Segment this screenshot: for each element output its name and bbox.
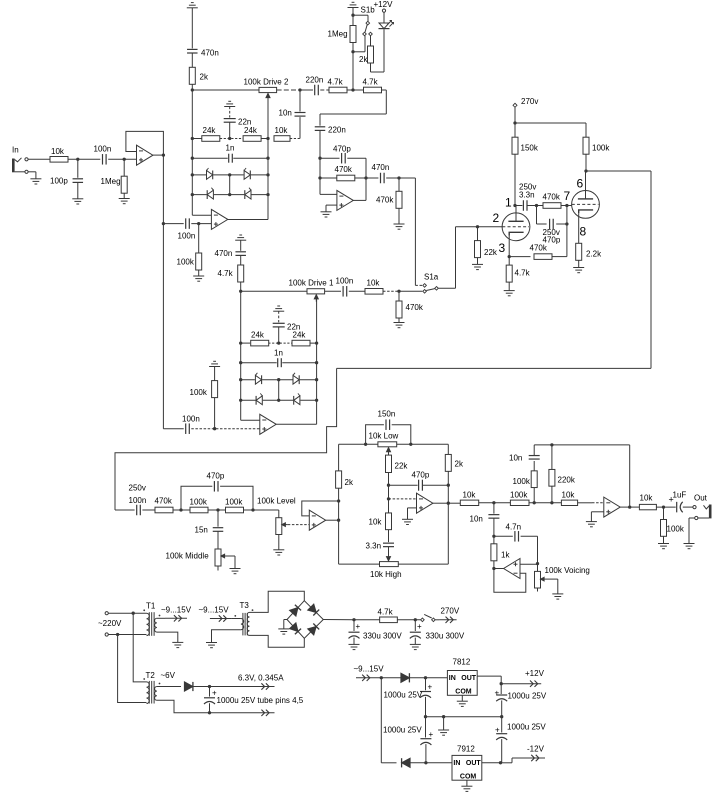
- wire tone rail: [338, 444, 340, 564]
- label In: [12, 146, 19, 155]
- resistor 470k interstage: [537, 193, 567, 209]
- node 7812 in cap: [424, 676, 427, 679]
- node 470p right: [565, 222, 568, 225]
- svg-text:7812: 7812: [453, 658, 471, 667]
- op-amp U4 feedback: [302, 501, 339, 516]
- label 100k Level: [257, 497, 296, 506]
- diode D1c: [256, 393, 263, 405]
- node lv split: [380, 676, 383, 679]
- svg-text:1n: 1n: [226, 144, 235, 153]
- svg-text:+: +: [417, 622, 422, 631]
- resistor 4.7k HV: [378, 608, 421, 623]
- wire 10k to C 100n: [68, 158, 100, 160]
- diode D1d: [293, 393, 300, 405]
- capacitor 22n drive2: [224, 107, 252, 139]
- svg-text:1000u 25V: 1000u 25V: [384, 691, 423, 700]
- wire 2k to LED: [371, 29, 385, 72]
- resistor 4.7k bias drive1: [218, 265, 244, 291]
- node rail 100n: [162, 222, 165, 225]
- resistor 22k grid: [475, 227, 498, 265]
- svg-text:100n: 100n: [178, 232, 196, 241]
- node 10n branch: [298, 88, 301, 91]
- wire 7812 out: [477, 676, 501, 684]
- transformer T3: [234, 601, 253, 635]
- ground 2.2k: [573, 268, 584, 273]
- svg-text:470k: 470k: [543, 193, 561, 202]
- potentiometer 100k Voicing: [535, 564, 590, 594]
- ground 7812 com: [457, 701, 468, 706]
- node com rail: [424, 715, 504, 718]
- capacitor 470n U2b out: [366, 163, 415, 183]
- potentiometer 100k Level: [276, 510, 310, 550]
- ground 100p: [72, 199, 83, 204]
- wire drive2 to S1a: [415, 178, 422, 285]
- wire T1 secondary top: [157, 617, 165, 619]
- resistor 2k S1b: [359, 36, 374, 72]
- node pin7: [564, 189, 571, 207]
- wire com rail: [426, 716, 502, 718]
- arrow -12V: [512, 745, 545, 762]
- label pin 8: [580, 225, 587, 239]
- node voicing pot top: [536, 562, 539, 565]
- svg-text:470k: 470k: [406, 303, 424, 312]
- svg-text:3: 3: [499, 241, 506, 255]
- ground U2b plus: [321, 205, 337, 217]
- wire right rail down to tone: [337, 171, 651, 368]
- op-amp U6: [604, 497, 630, 517]
- node V1b anode: [584, 169, 587, 172]
- wire T2 secondary top: [157, 686, 181, 688]
- op-amp U3 drive1: [260, 414, 317, 434]
- ground 330u first: [349, 644, 360, 649]
- label Out: [694, 494, 708, 503]
- node heater cap: [208, 685, 211, 688]
- capacitor 4.7n voicing: [494, 523, 538, 542]
- ground com rail: [438, 717, 449, 736]
- svg-text:470n: 470n: [201, 49, 219, 58]
- arrow 270V out: [439, 607, 460, 624]
- svg-text:2k: 2k: [359, 55, 368, 64]
- svg-text:470k: 470k: [155, 497, 173, 506]
- resistor 100k tone 2: [225, 498, 244, 513]
- svg-text:6: 6: [577, 177, 584, 191]
- node S1a drive1: [397, 290, 400, 293]
- wire clipper2 right rail: [267, 99, 269, 220]
- svg-text:100k: 100k: [190, 388, 208, 397]
- resistor 100k U3 bias: [190, 367, 218, 429]
- arrow T1 output ~9...15V: [161, 606, 192, 622]
- wire pin7 to tube: [567, 205, 572, 207]
- svg-text:1Meg: 1Meg: [328, 30, 348, 39]
- resistor 100k anode V1b: [583, 137, 610, 171]
- node S1b rail: [351, 88, 354, 91]
- capacitor 10n up: [509, 445, 540, 463]
- regulator 7912: [452, 745, 482, 787]
- wire clipper2 left rail: [192, 90, 211, 215]
- node 7912 in: [424, 761, 427, 764]
- svg-text:100k Voicing: 100k Voicing: [545, 566, 590, 575]
- node 470p mid left: [387, 484, 390, 487]
- svg-text:7: 7: [564, 189, 571, 203]
- svg-text:10k: 10k: [463, 491, 477, 500]
- potentiometer 100k Drive 1: [289, 279, 334, 302]
- ground top of 470n bias: [187, 3, 198, 8]
- svg-text:10n: 10n: [279, 109, 292, 118]
- potentiometer 10k Low: [369, 432, 399, 455]
- node U1 plus input: [123, 158, 126, 161]
- capacitor 470n bias drive1: [215, 240, 246, 265]
- svg-text:-12V: -12V: [527, 745, 545, 754]
- wire 10k to 10n branch: [290, 138, 300, 140]
- svg-text:150k: 150k: [521, 144, 539, 153]
- svg-text:470p: 470p: [207, 472, 225, 481]
- ground S1b: [348, 2, 359, 7]
- capacitor 470p interstage: [543, 219, 561, 245]
- svg-text:10n: 10n: [470, 515, 483, 524]
- wire clipper1 right rail: [316, 343, 318, 424]
- capacitor 1000u heater: [204, 687, 304, 713]
- node tone B: [208, 508, 226, 511]
- node 220k top: [550, 443, 553, 446]
- svg-text:Out: Out: [694, 494, 708, 503]
- triode V1b: [572, 171, 600, 243]
- svg-text:1n: 1n: [274, 349, 283, 358]
- node output divider: [662, 505, 665, 508]
- svg-text:~6V: ~6V: [161, 671, 176, 680]
- wire 470p loop: [537, 206, 567, 225]
- ground middle pot: [230, 569, 241, 574]
- svg-text:T1: T1: [146, 602, 156, 611]
- node U4 out: [337, 499, 340, 521]
- capacitor 220n drive2: [306, 76, 324, 96]
- resistor 470k pulldown drive2: [376, 178, 402, 224]
- svg-text:T3: T3: [240, 601, 250, 610]
- op-amp U7 voicing: [494, 559, 520, 579]
- resistor 22k low wiper: [386, 453, 409, 485]
- node 7812 out cap: [500, 682, 503, 685]
- capacitor 330u 300V first: [349, 620, 403, 645]
- svg-text:100n: 100n: [182, 415, 200, 424]
- resistor 10k drive1: [349, 279, 383, 295]
- wire T2 secondary bottom: [157, 700, 253, 713]
- node 3.3n right: [535, 204, 538, 207]
- svg-text:330u 300V: 330u 300V: [426, 632, 465, 641]
- capacitor 470n bias drive2: [187, 8, 219, 68]
- potentiometer 100k Middle: [166, 549, 236, 571]
- svg-text:24k: 24k: [203, 126, 217, 135]
- ground above 22n drive1: [273, 306, 284, 311]
- svg-text:100k: 100k: [510, 491, 528, 500]
- svg-text:22k: 22k: [395, 462, 409, 471]
- capacitor 22n drive1: [273, 311, 301, 343]
- capacitor 100n input: [94, 144, 112, 164]
- wire high row: [339, 563, 449, 565]
- ground 7912 com: [461, 786, 472, 791]
- resistor 10k output: [630, 494, 677, 510]
- label ~220V: [98, 619, 122, 628]
- node drive1 input: [239, 290, 242, 293]
- svg-text:10k: 10k: [367, 279, 381, 288]
- svg-text:10k: 10k: [275, 126, 289, 135]
- node mains T2 taps: [116, 612, 135, 637]
- svg-text:8: 8: [580, 225, 587, 239]
- node drive2 input: [191, 88, 194, 91]
- svg-text:2: 2: [493, 211, 500, 225]
- ground level pot: [273, 550, 284, 555]
- wire feedback top: [534, 444, 630, 446]
- ground input jack: [30, 179, 41, 184]
- resistor 4.7k drive2: [320, 78, 353, 93]
- svg-text:22k: 22k: [484, 248, 498, 257]
- capacitor 100n drive1: [336, 277, 354, 297]
- node V1a cathode: [508, 255, 511, 258]
- label pin 2: [493, 211, 500, 225]
- ground bridge: [278, 620, 289, 635]
- wire pot1 to 100n: [325, 290, 341, 292]
- label pin 6: [577, 177, 584, 191]
- node tone A: [173, 508, 190, 511]
- bridge rectifier B1: [287, 601, 323, 639]
- wire T3 secondary to bridge: [250, 591, 305, 647]
- svg-text:COM: COM: [455, 689, 472, 696]
- svg-text:470n: 470n: [372, 163, 390, 172]
- resistor 24k drive1 right: [292, 331, 310, 346]
- svg-text:3.3n: 3.3n: [519, 191, 535, 200]
- resistor 1Meg S1b: [328, 26, 357, 52]
- svg-text:270v: 270v: [521, 97, 538, 106]
- wire 4.7k to elbow: [320, 90, 386, 126]
- capacitor 1n drive2: [226, 144, 235, 163]
- svg-text:IN: IN: [449, 675, 456, 682]
- svg-text:10k High: 10k High: [370, 570, 402, 579]
- node HV cap 1: [352, 618, 355, 621]
- svg-text:470p: 470p: [333, 145, 351, 154]
- terminal mains top: [105, 612, 146, 615]
- svg-text:220k: 220k: [558, 476, 576, 485]
- terminal mains bottom: [105, 633, 146, 636]
- ground 1Meg input: [119, 199, 130, 204]
- capacitor 470p tone bridge: [181, 472, 253, 511]
- svg-text:1: 1: [505, 196, 512, 210]
- wire U1 output rail down: [162, 155, 164, 429]
- label ~9...15V lv: [354, 665, 385, 674]
- wire clipper1 wiper stem: [316, 297, 318, 344]
- node clipper1 junctions: [239, 341, 318, 401]
- svg-text:In: In: [12, 146, 19, 155]
- switch S1b: [353, 6, 375, 36]
- arrow lv input: [356, 675, 373, 681]
- capacitor 100n into U3: [163, 415, 259, 434]
- capacitor 10n series: [470, 503, 500, 537]
- ground above 100k U3: [209, 361, 220, 366]
- svg-text:100k Level: 100k Level: [257, 497, 296, 506]
- svg-text:~9...15V: ~9...15V: [161, 606, 192, 615]
- capacitor 3.3n coupling: [515, 200, 537, 211]
- svg-text:10k: 10k: [51, 147, 65, 156]
- svg-text:250v: 250v: [129, 484, 146, 493]
- svg-text:100k: 100k: [592, 144, 610, 153]
- svg-text:100n: 100n: [129, 496, 147, 505]
- diode D2b: [244, 168, 251, 180]
- svg-text:330u 300V: 330u 300V: [363, 632, 402, 641]
- capacitor 100n into U2: [163, 218, 211, 240]
- wire S1a to tube grid: [456, 227, 503, 288]
- resistor 470k pulldown drive1: [396, 291, 424, 322]
- capacitor 100p: [50, 159, 83, 199]
- capacitor 1n drive1: [274, 349, 283, 368]
- wire U7 plus: [520, 563, 538, 565]
- wire pot to 220n: [277, 89, 313, 91]
- resistor 24k drive2 left: [202, 126, 220, 141]
- svg-text:+: +: [429, 730, 434, 739]
- transformer T2: [143, 671, 175, 704]
- svg-text:3.3n: 3.3n: [366, 542, 382, 551]
- node low pot ends: [364, 443, 412, 446]
- svg-text:+: +: [495, 689, 500, 698]
- diode D2d: [244, 188, 251, 200]
- svg-text:15n: 15n: [195, 526, 208, 535]
- arrow heater return: [253, 710, 275, 716]
- svg-text:4.7k: 4.7k: [218, 269, 234, 278]
- svg-text:4.7k: 4.7k: [363, 78, 379, 87]
- diode D2 plus12: [401, 673, 448, 682]
- node 220k bottom: [550, 501, 553, 504]
- wire 1Meg node to drive2 row: [352, 52, 354, 90]
- svg-text:470k: 470k: [335, 165, 353, 174]
- capacitor 1000u 7812 out: [495, 684, 547, 717]
- svg-text:470k: 470k: [376, 196, 394, 205]
- capacitor 1000u minus in: [383, 717, 434, 763]
- svg-text:24k: 24k: [251, 331, 265, 340]
- resistor 220k: [549, 445, 576, 503]
- ground output jack: [684, 544, 695, 549]
- wire mid right rail: [447, 485, 449, 564]
- op-amp U1 feedback wire: [126, 131, 163, 155]
- node mid minus: [387, 497, 390, 500]
- op-amp U2 drive2: [211, 209, 268, 229]
- svg-text:100k: 100k: [225, 498, 243, 507]
- svg-text:1000u 25V: 1000u 25V: [383, 726, 422, 735]
- wire lv input: [373, 677, 401, 679]
- wire mid minus: [389, 485, 417, 499]
- svg-text:1uF: 1uF: [673, 491, 687, 500]
- node input RC: [76, 158, 79, 161]
- op-amp U2b: [337, 190, 366, 210]
- resistor 2k bias drive2: [189, 67, 209, 90]
- svg-text:270V: 270V: [441, 607, 460, 616]
- wire U2b feedback rail: [365, 158, 367, 200]
- svg-text:100k: 100k: [667, 525, 685, 534]
- resistor 10k mid chain: [369, 499, 392, 543]
- svg-text:100n: 100n: [94, 144, 112, 153]
- node 10n out branch: [492, 501, 495, 504]
- resistor 470k tone input: [142, 497, 173, 513]
- wire drive2 input row: [192, 89, 259, 91]
- node 100k up branch: [533, 501, 536, 504]
- terminal 270v: [513, 97, 538, 123]
- output jack J2: [689, 505, 710, 544]
- resistor 2k low right: [445, 454, 464, 485]
- node heater return: [208, 711, 211, 714]
- resistor 24k drive2 right: [243, 126, 261, 141]
- diode D4 heater: [184, 682, 252, 691]
- ground T1 secondary: [172, 642, 183, 647]
- resistor 100k tone 1: [190, 498, 209, 513]
- ground 4.7k cathode: [504, 291, 515, 296]
- label pin 3: [499, 241, 506, 255]
- capacitor 1uF output: [669, 491, 693, 513]
- wire U7 feedback: [494, 569, 526, 593]
- LED D1: [379, 9, 394, 29]
- resistor 10k input: [50, 147, 68, 162]
- svg-text:24k: 24k: [293, 331, 307, 340]
- svg-text:220n: 220n: [306, 76, 324, 85]
- svg-text:4.7k: 4.7k: [328, 78, 344, 87]
- node 270v rail: [513, 121, 516, 124]
- node 22k grid: [476, 225, 479, 228]
- node U5 out: [447, 502, 450, 505]
- ground 470k drive2: [394, 224, 405, 229]
- svg-text:10k: 10k: [640, 494, 654, 503]
- node clipper2 junctions: [191, 137, 270, 196]
- diode D2a: [206, 168, 213, 180]
- svg-text:~220V: ~220V: [98, 619, 122, 628]
- capacitor 10n drive2: [279, 90, 306, 139]
- arrow +12V: [501, 669, 544, 687]
- wire 4.7k-2 drive2: [353, 89, 364, 91]
- svg-text:100k: 100k: [177, 258, 195, 267]
- resistor 10k into U6: [561, 491, 603, 506]
- capacitor 470p U2b: [320, 145, 366, 164]
- node voicing out: [492, 567, 495, 570]
- wire 10k to S1a node: [383, 290, 399, 292]
- wire tone input elbow: [115, 368, 337, 510]
- wire T1 secondary bottom: [157, 632, 178, 642]
- svg-text:10n: 10n: [509, 454, 522, 463]
- node 470p mid right: [447, 484, 450, 487]
- svg-text:+: +: [356, 622, 361, 631]
- node S1b top: [351, 8, 354, 26]
- svg-text:+12V: +12V: [525, 669, 545, 678]
- resistor 150k anode V1a: [512, 123, 539, 206]
- ground 470k drive1: [394, 323, 405, 328]
- capacitor 220n U2b input: [315, 126, 346, 195]
- svg-text:+: +: [495, 726, 500, 735]
- ground above 22n drive2: [224, 101, 235, 106]
- node 1Meg bottom: [351, 36, 365, 54]
- svg-text:100k: 100k: [190, 498, 208, 507]
- svg-text:4.7k: 4.7k: [378, 608, 394, 617]
- svg-text:T2: T2: [146, 671, 156, 680]
- capacitor 1000u 7812 in: [384, 678, 433, 717]
- ground T3 primary: [206, 643, 217, 648]
- svg-text:10k Low: 10k Low: [369, 432, 399, 441]
- capacitor 150n bridge: [366, 410, 411, 445]
- wire U6 feedback: [629, 445, 631, 507]
- ground U6 plus: [586, 512, 604, 527]
- node HV cap 2: [414, 618, 417, 621]
- resistor 4.7k cathode V1a: [506, 257, 530, 291]
- triode V1a: [502, 206, 530, 257]
- node 7912 out: [499, 761, 502, 764]
- svg-text:2k: 2k: [345, 478, 354, 487]
- svg-text:1000u 25V tube pins 4,5: 1000u 25V tube pins 4,5: [217, 696, 304, 705]
- label +12V: [374, 0, 394, 9]
- transformer T1: [143, 602, 160, 636]
- node 4.7n branch: [492, 535, 495, 538]
- svg-text:4.7n: 4.7n: [506, 523, 522, 532]
- wire T3 primary bottom to ground: [212, 630, 241, 643]
